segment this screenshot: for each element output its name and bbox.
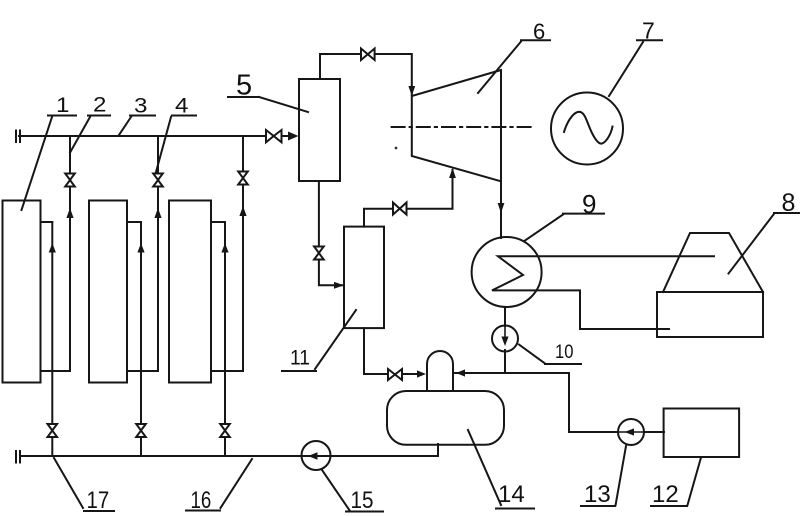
label 7	[642, 18, 655, 44]
collector 3 body	[169, 201, 211, 383]
main steam header pipe	[19, 135, 290, 137]
pipe break tick (feed line start)	[16, 451, 20, 463]
collector 2 steam arrow	[154, 208, 161, 218]
collector 3 bottom stub	[211, 370, 243, 372]
deaerator dome	[427, 351, 453, 391]
collector 1 drain valve	[48, 424, 58, 437]
extraction arrow into turbine	[449, 168, 456, 178]
collector 2 body	[89, 201, 127, 383]
scan speck near turbine	[395, 147, 398, 150]
label 11	[290, 347, 310, 370]
collector 1 steam pipe	[69, 136, 71, 371]
label 8	[782, 189, 796, 217]
label 17	[87, 486, 110, 513]
valve on turbine inlet pipe	[361, 49, 375, 61]
collector 1 body	[3, 201, 41, 383]
pump 13 arrow	[625, 428, 635, 435]
arrow into expander 5	[288, 132, 299, 141]
collector 1 bottom stub	[41, 370, 71, 372]
deaerator tank 14	[387, 391, 504, 445]
vessel 11	[344, 227, 384, 329]
label 15	[351, 486, 374, 513]
collector 2 riser arrow	[137, 243, 144, 253]
makeup pump 13	[618, 419, 644, 445]
label 12	[652, 481, 679, 508]
label 2	[93, 93, 106, 116]
pipe pump13 to tank12	[618, 431, 664, 433]
feedwater bottom line	[21, 455, 438, 457]
pipe break tick (header start)	[16, 131, 20, 143]
arrow into deaerator dome left	[417, 370, 426, 377]
svg-text:14: 14	[498, 481, 525, 508]
makeup tank 12	[664, 409, 740, 458]
generator sine wave	[564, 112, 613, 144]
collector 1 riser pipe	[41, 222, 53, 456]
label 4	[175, 94, 188, 117]
svg-text:1: 1	[56, 93, 69, 116]
collector 2 steam valve	[153, 174, 163, 187]
collector 2 drain valve	[136, 424, 146, 437]
collector 3 steam arrow	[239, 206, 246, 216]
turbine 6	[412, 70, 501, 181]
collector 3 riser pipe	[211, 222, 225, 456]
turbine axis dash-dot line	[392, 126, 532, 128]
condenser coil and cooling water out line	[492, 256, 714, 329]
svg-text:10: 10	[555, 341, 573, 363]
pump 10 arrow	[501, 337, 508, 347]
collector 2 riser pipe	[127, 222, 141, 456]
valve on dome feed line	[388, 369, 402, 380]
collector 3 drain valve	[220, 424, 230, 437]
extraction pipe turbine to vessel 11	[364, 170, 453, 227]
collector 1 riser arrow	[49, 243, 56, 253]
label 14	[498, 481, 525, 508]
label 5	[236, 70, 252, 102]
valve on extraction pipe	[393, 203, 407, 215]
exhaust arrow	[498, 203, 505, 213]
svg-text:17: 17	[87, 486, 110, 513]
cooling tower 8 top	[663, 233, 763, 292]
feed pump 15	[302, 441, 331, 470]
svg-text:11: 11	[290, 347, 310, 370]
cooling tower 8 base	[657, 292, 763, 337]
label 16	[191, 487, 212, 514]
collector 3 steam valve	[238, 172, 248, 185]
collector 1 steam arrow	[66, 208, 73, 218]
drain pipe vessel11 to dome	[364, 328, 418, 374]
drain pipe vessel5 to vessel11	[319, 181, 342, 285]
label 9	[582, 189, 596, 219]
expander vessel 5	[299, 79, 340, 181]
collector 2 bottom stub	[127, 370, 158, 372]
label 13	[584, 481, 611, 508]
steam pipe vessel5 to turbine	[320, 54, 412, 95]
collector 1 steam valve	[65, 174, 75, 187]
pump 10 inlet pipe	[504, 307, 506, 326]
svg-text:15: 15	[351, 486, 374, 513]
svg-text:4: 4	[175, 94, 188, 117]
condensate pump 10	[492, 326, 518, 352]
collector 3 steam pipe	[242, 136, 244, 371]
condenser 9	[472, 237, 542, 307]
svg-text:16: 16	[191, 487, 212, 514]
label 1	[56, 93, 69, 116]
label 3	[134, 94, 147, 117]
pump 10 outlet pipe to deaerator	[455, 350, 505, 373]
collector 2 steam pipe	[157, 136, 159, 371]
svg-text:2: 2	[93, 93, 106, 116]
condensate line branch to pump 13	[505, 373, 618, 432]
label 6	[533, 19, 545, 44]
svg-text:13: 13	[584, 481, 611, 508]
svg-text:12: 12	[652, 481, 679, 508]
collector 3 riser arrow	[221, 243, 228, 253]
valve on vessel5 drain	[314, 247, 324, 260]
svg-text:3: 3	[134, 94, 147, 117]
turbine inlet arrow	[408, 86, 415, 96]
arrow into deaerator dome right	[456, 369, 465, 376]
arrow into vessel 11	[334, 282, 344, 289]
label 10	[555, 341, 573, 363]
valve on main header	[266, 130, 282, 142]
deaerator outlet drop	[437, 444, 439, 456]
pump 15 arrow	[308, 452, 318, 460]
generator 7	[551, 93, 623, 165]
turbine exhaust pipe	[500, 181, 502, 238]
